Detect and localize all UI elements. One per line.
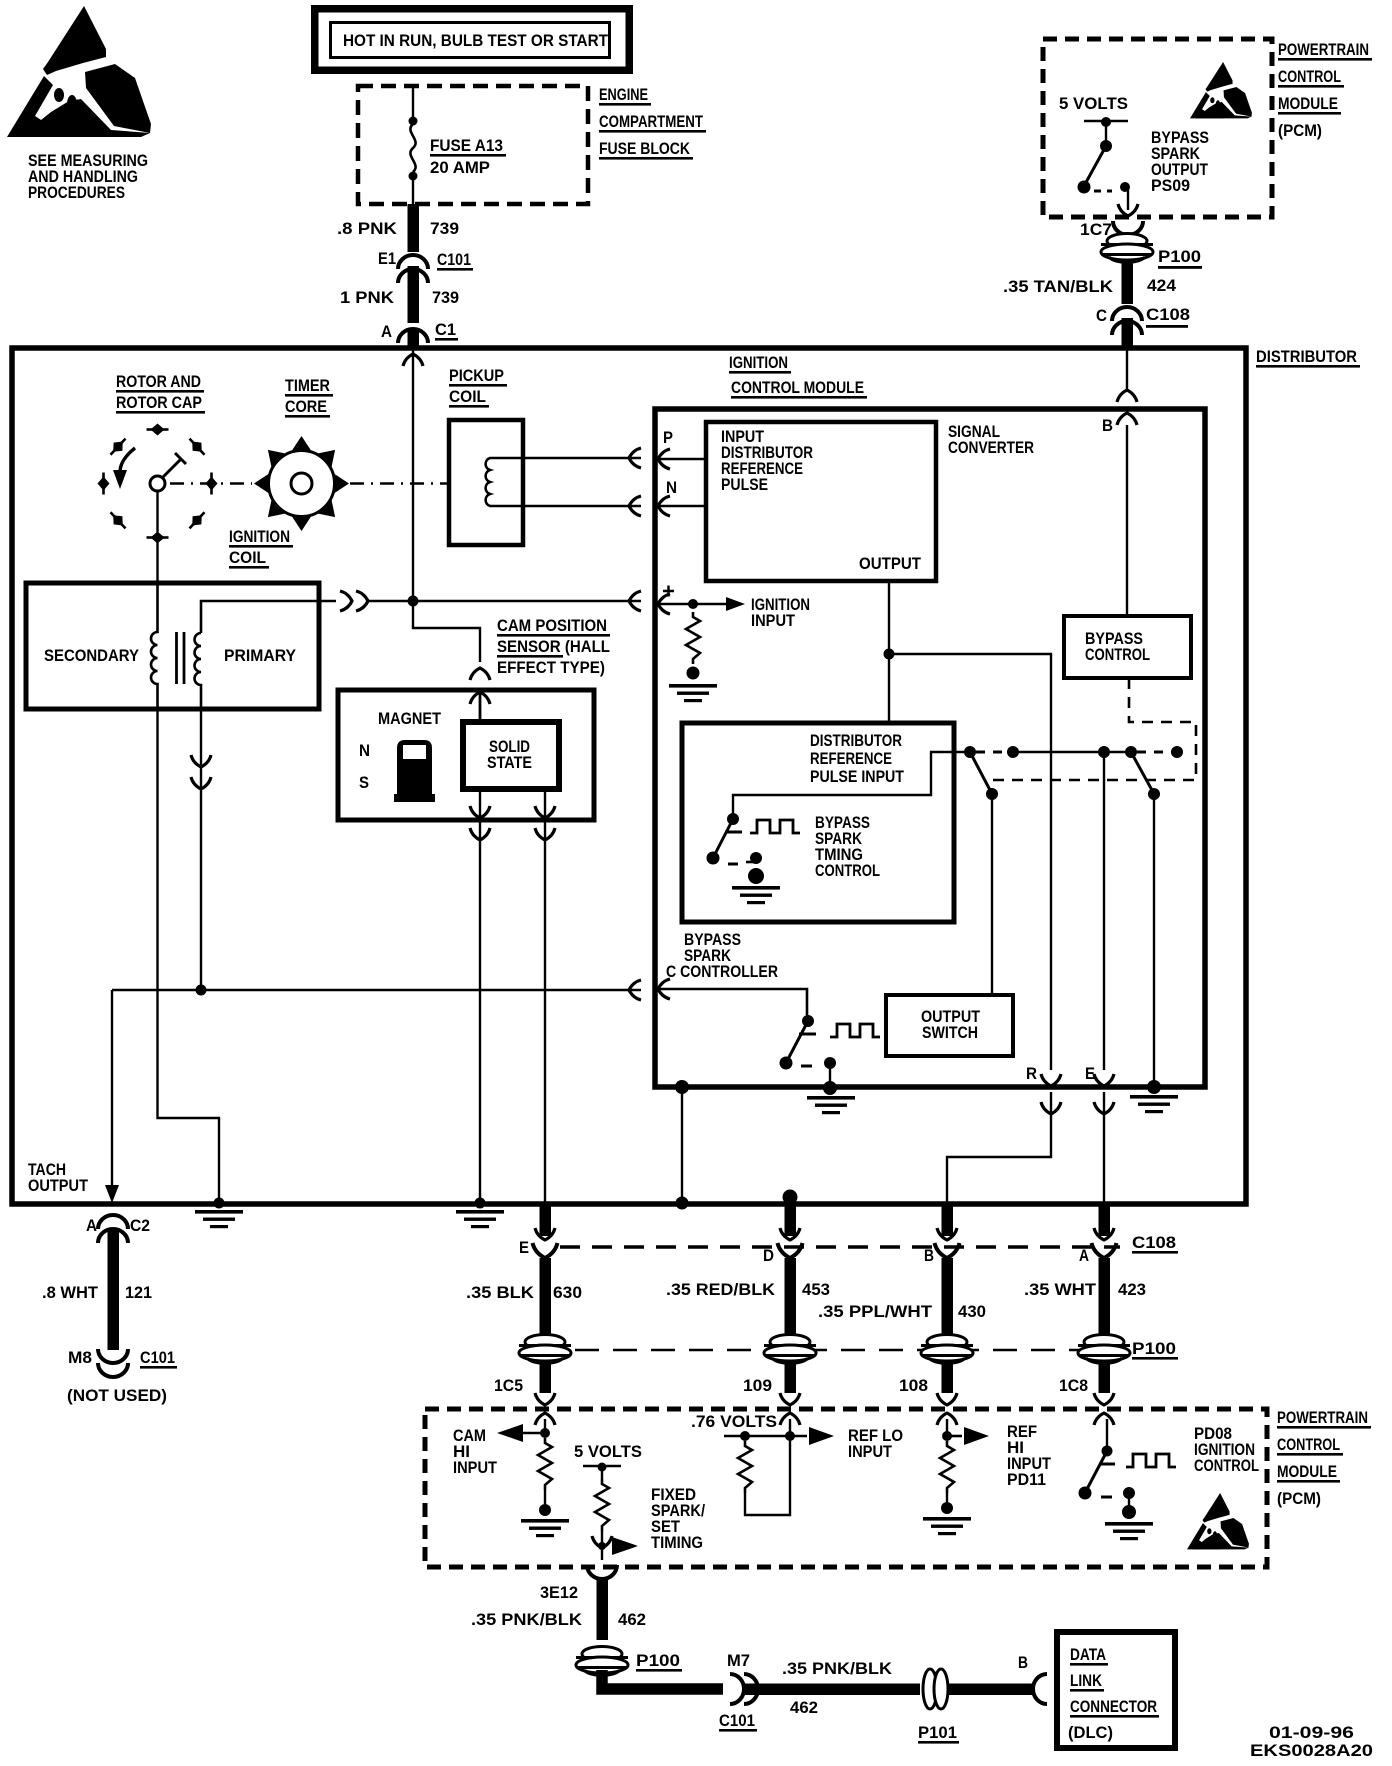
.76 volts loop ref lo (691, 1412, 903, 1515)
fuse label (430, 136, 506, 177)
wire switch2 to ground (1153, 794, 1155, 1083)
svg-text:5 VOLTS: 5 VOLTS (1059, 94, 1128, 113)
svg-text:INPUT: INPUT (751, 611, 796, 630)
svg-text:FUSE BLOCK: FUSE BLOCK (599, 139, 691, 158)
svg-text:SENSOR (HALL: SENSOR (HALL (497, 637, 610, 656)
svg-text:CAM POSITION: CAM POSITION (497, 616, 607, 635)
distributor box (12, 348, 1246, 1204)
wire D C108 (763, 1200, 803, 1336)
wire 424 into distributor (1122, 318, 1134, 349)
wire module to distributor bottom (681, 1087, 683, 1203)
connector half at DLC (1033, 1674, 1047, 1704)
label ignition coil (229, 527, 293, 569)
5 volts fixed spark (574, 1442, 705, 1560)
svg-text:HOT IN RUN, BULB TEST OR START: HOT IN RUN, BULB TEST OR START (343, 31, 609, 50)
svg-text:R: R (1026, 1064, 1037, 1083)
dashed linkage from bypass control (986, 678, 1196, 780)
svg-text:CONNECTOR: CONNECTOR (1070, 1697, 1157, 1716)
svg-text:430: 430 (958, 1302, 986, 1321)
svg-text:P100: P100 (1132, 1339, 1176, 1358)
svg-text:SWITCH: SWITCH (922, 1023, 978, 1042)
wire from C1 down (412, 348, 414, 601)
svg-text:C1: C1 (435, 320, 456, 339)
svg-text:CONTROL: CONTROL (1278, 67, 1341, 86)
svg-text:PULSE: PULSE (721, 475, 768, 494)
dashed link 2 (1137, 751, 1172, 754)
svg-text:FUSE A13: FUSE A13 (430, 136, 503, 155)
connector C1 pin A (381, 320, 458, 343)
wire rotor to coil (156, 491, 158, 583)
label powertrain control module PCM (1278, 40, 1372, 140)
svg-text:INPUT: INPUT (453, 1458, 498, 1477)
wire 462 horizontal (602, 1670, 723, 1689)
connector C108 pin C (1096, 305, 1190, 335)
label data link connector (1068, 1645, 1159, 1742)
junction dots bottom edge (676, 1197, 689, 1210)
label pd08 ignition control (1194, 1424, 1259, 1475)
svg-text:INPUT: INPUT (848, 1442, 893, 1461)
DRPI square wave (750, 820, 800, 833)
ESD triangle PCM bottom (1187, 1493, 1249, 1549)
svg-text:MAGNET: MAGNET (378, 709, 442, 728)
wire row to E (1013, 751, 1131, 753)
grommet 108 (899, 1335, 973, 1426)
pickup coil lead P (498, 457, 641, 459)
svg-text:DISTRIBUTOR: DISTRIBUTOR (810, 731, 902, 750)
svg-text:(NOT USED): (NOT USED) (67, 1386, 167, 1405)
svg-text:COIL: COIL (229, 548, 266, 567)
connector 1C7 (1080, 220, 1143, 239)
svg-text:1C5: 1C5 (494, 1376, 523, 1395)
switch PS09 (1078, 117, 1139, 216)
junction node (408, 596, 419, 607)
svg-text:COIL: COIL (449, 387, 486, 406)
wire switch1 to output switch (991, 794, 993, 995)
svg-text:PROCEDURES: PROCEDURES (28, 183, 125, 202)
svg-text:5 VOLTS: 5 VOLTS (574, 1442, 642, 1461)
svg-text:P101: P101 (918, 1723, 957, 1742)
svg-text:PICKUP: PICKUP (449, 366, 504, 385)
wire junction to cam sensor (413, 601, 480, 662)
wire A C108 (1079, 1206, 1117, 1336)
svg-text:S: S (359, 773, 369, 792)
svg-text:.8 WHT: .8 WHT (42, 1283, 99, 1302)
label powertrain control module bottom (1277, 1408, 1371, 1508)
bypass spark controller wire (657, 979, 807, 1018)
svg-text:M8: M8 (68, 1348, 92, 1367)
svg-text:CONTROL: CONTROL (1085, 645, 1150, 664)
connector M7 C101 (719, 1651, 758, 1732)
svg-text:OUTPUT: OUTPUT (28, 1176, 89, 1195)
svg-text:.35 PPL/WHT: .35 PPL/WHT (818, 1302, 933, 1321)
switch row node R1 (964, 746, 976, 758)
wire 462 vertical (597, 1578, 609, 1640)
label cam position sensor (497, 616, 610, 677)
grommet 109 (743, 1335, 816, 1426)
sensor output leads (470, 789, 555, 1203)
svg-text:1C8: 1C8 (1059, 1376, 1088, 1395)
svg-text:EFFECT TYPE): EFFECT TYPE) (497, 658, 605, 677)
DRPI internal wire (733, 752, 967, 816)
wire to DLC (948, 1684, 1033, 1696)
output R (947, 1064, 1061, 1203)
svg-text:MODULE: MODULE (1277, 1462, 1337, 1481)
bypass control box (1064, 616, 1191, 678)
svg-text:PULSE INPUT: PULSE INPUT (810, 767, 905, 786)
switch arm 2 (1131, 752, 1153, 792)
svg-text:PD11: PD11 (1007, 1470, 1046, 1489)
ground sensor lead (456, 1198, 504, 1229)
svg-text:CONTROL MODULE: CONTROL MODULE (731, 378, 864, 397)
wire into distributor (408, 330, 420, 348)
grommet P100 bottom (576, 1647, 682, 1676)
secondary lead to ground (158, 709, 220, 1203)
svg-text:B: B (1102, 416, 1113, 435)
svg-text:CORE: CORE (285, 397, 327, 416)
svg-text:.35 PNK/BLK: .35 PNK/BLK (471, 1610, 583, 1629)
connector C101 pin E1 (378, 249, 473, 283)
svg-text:1 PNK: 1 PNK (340, 288, 395, 307)
svg-text:C101: C101 (719, 1711, 755, 1730)
wire 121 (108, 1230, 120, 1350)
svg-text:LINK: LINK (1070, 1671, 1103, 1690)
svg-text:N: N (666, 478, 677, 497)
magnet box (338, 690, 594, 820)
resistor ignition input (686, 612, 700, 664)
svg-text:D: D (763, 1246, 774, 1265)
connector P101 (918, 1669, 959, 1744)
svg-text:ROTOR AND: ROTOR AND (116, 372, 201, 391)
svg-text:P: P (663, 428, 673, 447)
svg-text:SECONDARY: SECONDARY (44, 646, 140, 665)
controller square wave (830, 1024, 880, 1037)
DLC box (1057, 1632, 1175, 1748)
svg-text:N: N (359, 741, 370, 760)
svg-text:COMPARTMENT: COMPARTMENT (599, 112, 703, 131)
input P (657, 428, 706, 469)
svg-text:CONTROL: CONTROL (1194, 1456, 1259, 1475)
PCM top box (dashed) (1043, 39, 1272, 217)
svg-text:C101: C101 (140, 1348, 175, 1367)
svg-text:P100: P100 (636, 1651, 680, 1670)
svg-text:DATA: DATA (1070, 1645, 1106, 1664)
svg-text:REFERENCE: REFERENCE (810, 749, 892, 768)
svg-text:ENGINE: ENGINE (599, 85, 648, 104)
svg-text:MODULE: MODULE (1278, 94, 1338, 113)
svg-text:121: 121 (125, 1283, 152, 1302)
PCM bottom box dashed (425, 1409, 1267, 1567)
label pickup coil (449, 366, 507, 408)
output switch box (886, 995, 1013, 1056)
solid state box (463, 722, 559, 789)
svg-text:C108: C108 (1132, 1233, 1176, 1252)
label signal converter (948, 422, 1034, 457)
wire node E down (1103, 752, 1105, 1070)
label bypass spark controller (666, 930, 778, 981)
svg-text:.35 RED/BLK: .35 RED/BLK (666, 1280, 776, 1299)
svg-text:462: 462 (618, 1610, 646, 1629)
svg-text:109: 109 (743, 1376, 772, 1395)
connector row C108 dashed (560, 1245, 1120, 1248)
primary lead down (191, 709, 211, 990)
wire 462 to P101 (745, 1684, 920, 1696)
grommet 1C8 (1059, 1335, 1130, 1426)
svg-text:TIMING: TIMING (651, 1533, 703, 1552)
wire 424 B input (1102, 349, 1137, 616)
connector row P100 dashed (575, 1349, 1123, 1352)
svg-text:.76 VOLTS: .76 VOLTS (691, 1412, 777, 1431)
cam hi input (453, 1419, 569, 1537)
ignition input node (657, 586, 810, 631)
svg-text:E: E (1085, 1064, 1095, 1083)
wire primary to module with arrows (340, 591, 641, 611)
pickup coil winding (486, 458, 498, 506)
svg-text:1C7: 1C7 (1080, 220, 1112, 239)
svg-text:.8 PNK: .8 PNK (337, 219, 398, 238)
svg-text:POWERTRAIN: POWERTRAIN (1277, 1408, 1368, 1427)
svg-text:CONVERTER: CONVERTER (948, 438, 1034, 457)
rotor and rotor cap symbol (98, 424, 218, 544)
label bypass spark output PS09 (1151, 128, 1209, 195)
svg-text:IGNITION: IGNITION (729, 353, 788, 372)
ref hi input (923, 1419, 1052, 1535)
label engine compartment fuse block (599, 85, 706, 160)
pd08 square wave (1126, 1454, 1176, 1467)
svg-text:(DLC): (DLC) (1068, 1723, 1113, 1742)
module bottom junction (675, 1080, 689, 1094)
primary top lead (201, 601, 336, 633)
controller switch (780, 1015, 837, 1085)
ground module right (1130, 1080, 1178, 1113)
svg-text:A: A (86, 1216, 97, 1235)
svg-text:P100: P100 (1158, 247, 1201, 266)
wire 424 (1122, 260, 1134, 304)
signal converter box (706, 422, 936, 581)
DRPI box (682, 723, 954, 922)
output E (1085, 1064, 1114, 1203)
svg-text:.35 BLK: .35 BLK (466, 1283, 535, 1302)
svg-text:423: 423 (1118, 1280, 1146, 1299)
pickup coil lead N (498, 505, 641, 507)
connector M8 C101 (68, 1348, 177, 1377)
label ignition control module (729, 353, 867, 399)
svg-text:C108: C108 (1146, 305, 1190, 324)
power feed label box HOT IN RUN (315, 9, 630, 71)
svg-text:IGNITION: IGNITION (229, 527, 290, 546)
DRPI switch (707, 813, 763, 865)
coil core (175, 632, 178, 684)
magnet icon (394, 740, 435, 802)
svg-text:CONTROL: CONTROL (1277, 1435, 1340, 1454)
svg-text:C101: C101 (437, 250, 471, 269)
wire 739 lower segment (408, 266, 420, 323)
label rotor and rotor cap (116, 372, 205, 414)
fuse A13 (409, 88, 418, 204)
svg-text:ROTOR CAP: ROTOR CAP (116, 393, 202, 412)
wire B C108 (924, 1206, 960, 1336)
ground secondary (195, 1198, 243, 1229)
ground controller switch (807, 1081, 855, 1114)
svg-text:.35 PNK/BLK: .35 PNK/BLK (782, 1659, 893, 1678)
wire 739 upper segment (408, 204, 420, 252)
svg-text:M7: M7 (727, 1651, 750, 1670)
svg-text:C: C (1096, 306, 1107, 325)
svg-text:PRIMARY: PRIMARY (224, 646, 297, 665)
svg-text:739: 739 (430, 219, 459, 238)
svg-text:EKS0028A20: EKS0028A20 (1250, 1741, 1373, 1760)
svg-text:(PCM): (PCM) (1278, 121, 1322, 140)
ESD triangle PCM top (1190, 62, 1252, 118)
svg-text:.35 TAN/BLK: .35 TAN/BLK (1003, 277, 1114, 296)
ESD symbol: see measuring and handling procedures (7, 6, 151, 137)
label bypass spark tming control (815, 813, 880, 880)
svg-text:C CONTROLLER: C CONTROLLER (666, 962, 778, 981)
input N (657, 478, 706, 516)
svg-text:TIMER: TIMER (285, 376, 330, 395)
svg-text:108: 108 (899, 1376, 928, 1395)
ground ignition input (669, 667, 717, 703)
primary winding (195, 633, 201, 707)
svg-text:3E12: 3E12 (540, 1583, 578, 1602)
svg-text:453: 453 (802, 1280, 830, 1299)
rotor rotation arrow (120, 448, 135, 472)
svg-text:630: 630 (553, 1283, 582, 1302)
svg-text:20 AMP: 20 AMP (430, 158, 490, 177)
engine compartment fuse block box (dashed) (358, 86, 588, 204)
DRPI ground (732, 868, 780, 904)
svg-text:424: 424 (1147, 276, 1177, 295)
label distributor (1256, 347, 1360, 368)
label timer core (285, 376, 333, 418)
tach output wire (105, 980, 641, 1203)
grommet 1C5 (494, 1335, 571, 1426)
solid state top lead (479, 694, 482, 722)
svg-text:OUTPUT: OUTPUT (859, 554, 922, 573)
svg-text:E: E (519, 1238, 529, 1257)
document number (1250, 1723, 1373, 1760)
ignition coil box (26, 583, 319, 709)
connector P100 top (1101, 234, 1202, 269)
pd08 ignition control switch (1079, 1419, 1154, 1540)
svg-text:B: B (924, 1246, 934, 1265)
dash-dot centerline (170, 482, 449, 484)
svg-text:739: 739 (432, 288, 459, 307)
ignition control module box (655, 409, 1205, 1087)
svg-text:A: A (1079, 1246, 1089, 1265)
label tach output (28, 1160, 89, 1195)
svg-text:STATE: STATE (487, 753, 532, 772)
svg-text:CONTROL: CONTROL (815, 861, 880, 880)
svg-text:(PCM): (PCM) (1277, 1489, 1321, 1508)
svg-text:DISTRIBUTOR: DISTRIBUTOR (1256, 347, 1357, 366)
timer core symbol (254, 436, 349, 531)
output wire (884, 581, 1052, 1070)
svg-text:E1: E1 (378, 249, 396, 268)
connector 3E12 (540, 1565, 617, 1602)
switch arm 1 (970, 752, 991, 792)
wire E C108 (519, 1206, 558, 1336)
svg-text:PS09: PS09 (1151, 176, 1190, 195)
svg-text:462: 462 (790, 1698, 818, 1717)
svg-text:01-09-96: 01-09-96 (1269, 1723, 1354, 1742)
connector A C2 (86, 1215, 150, 1243)
svg-text:C2: C2 (130, 1216, 150, 1235)
svg-text:B: B (1018, 1653, 1028, 1672)
secondary winding (151, 585, 158, 707)
svg-text:POWERTRAIN: POWERTRAIN (1278, 40, 1369, 59)
svg-text:A: A (381, 322, 392, 341)
rotor arm (160, 459, 181, 480)
dashed link (976, 751, 1008, 754)
svg-text:.35 WHT: .35 WHT (1024, 1280, 1097, 1299)
pickup coil box (449, 420, 523, 545)
